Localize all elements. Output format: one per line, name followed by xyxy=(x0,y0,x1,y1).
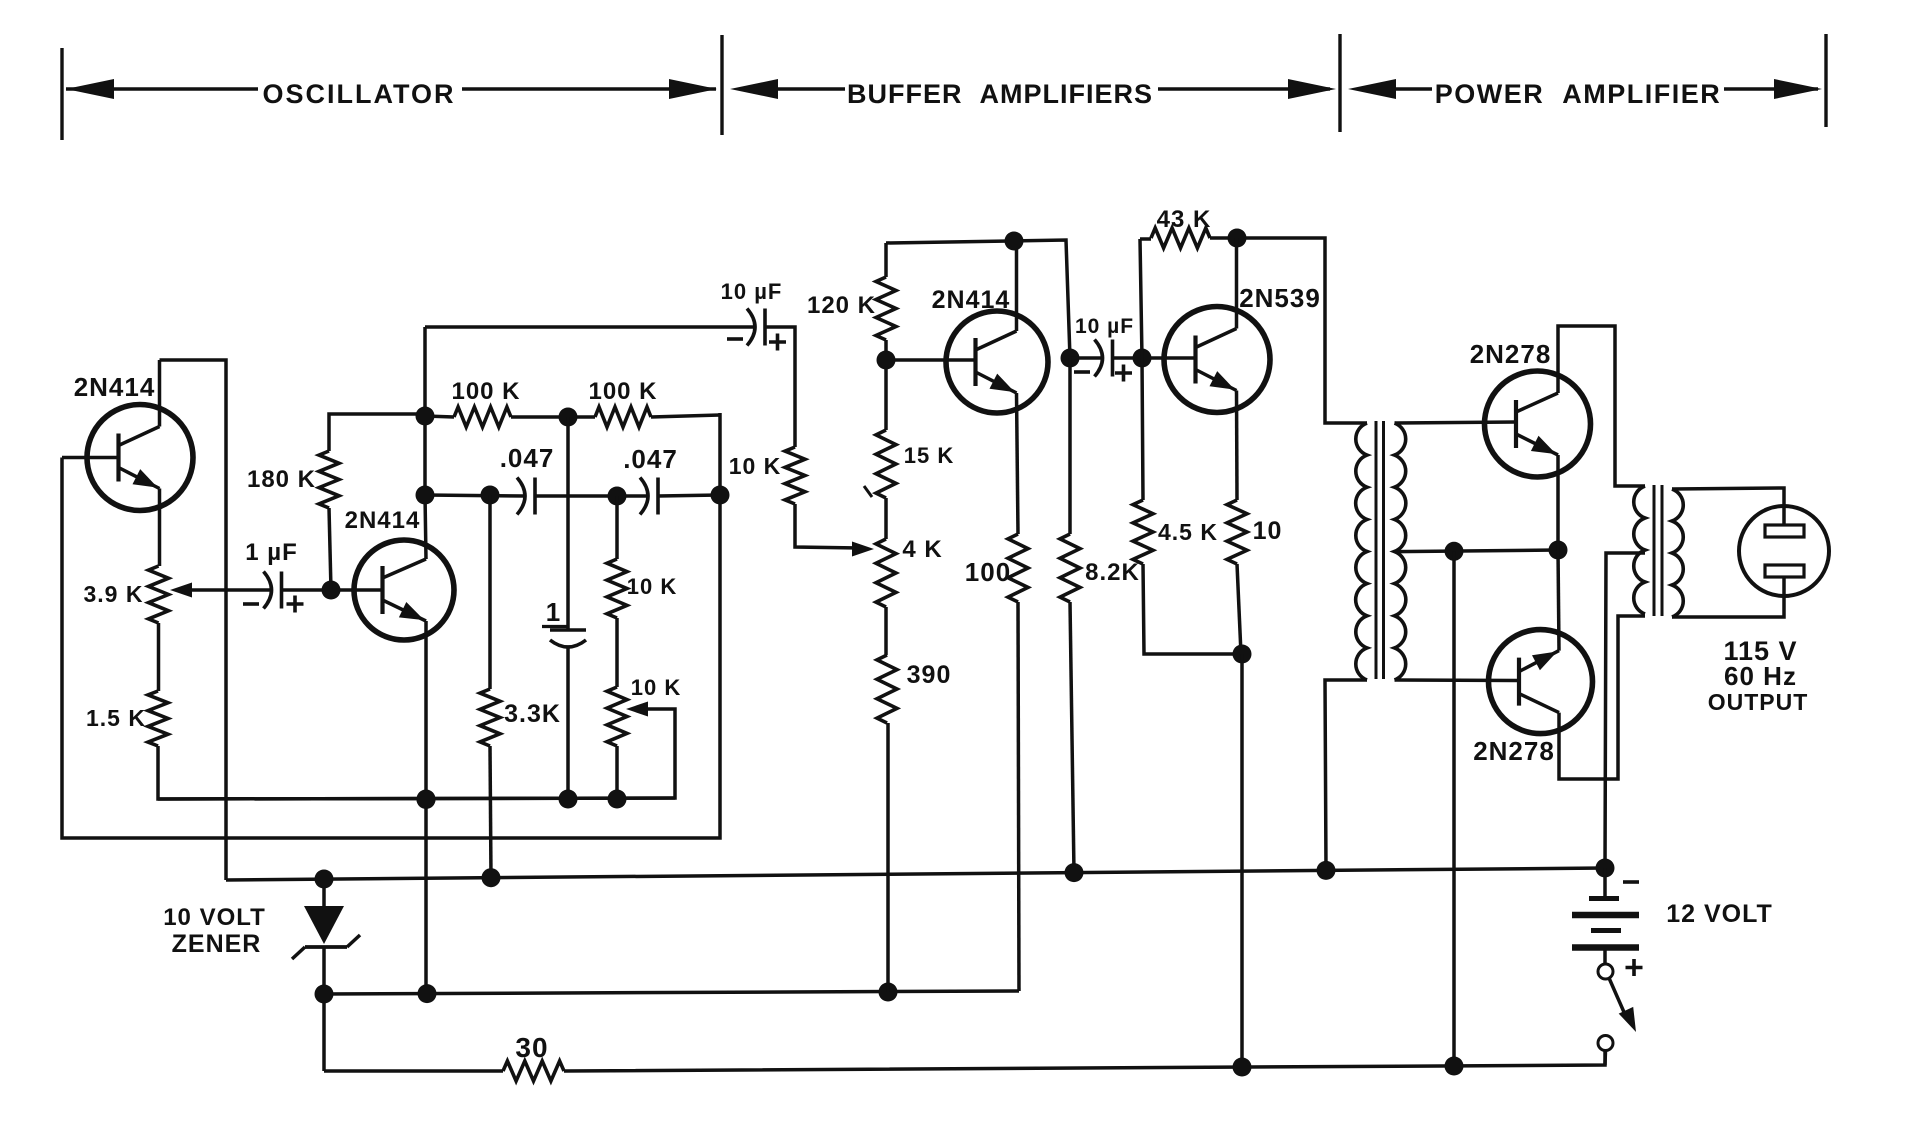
svg-text:4.5 K: 4.5 K xyxy=(1158,519,1218,545)
svg-text:10 µF: 10 µF xyxy=(1075,315,1134,338)
svg-text:2N539: 2N539 xyxy=(1239,283,1321,313)
svg-text:8.2K: 8.2K xyxy=(1085,559,1140,586)
svg-text:10 K: 10 K xyxy=(631,675,681,700)
svg-text:3.9 K: 3.9 K xyxy=(84,581,144,607)
svg-text:43 K: 43 K xyxy=(1157,206,1212,233)
svg-text:2N414: 2N414 xyxy=(345,507,421,534)
svg-text:180 K: 180 K xyxy=(247,466,316,493)
svg-text:15 K: 15 K xyxy=(904,443,954,468)
svg-text:10 µF: 10 µF xyxy=(721,279,783,304)
svg-text:2N278: 2N278 xyxy=(1473,736,1555,766)
svg-text:100 K: 100 K xyxy=(588,378,657,405)
svg-text:100 K: 100 K xyxy=(451,378,520,405)
svg-text:1 µF: 1 µF xyxy=(245,539,298,566)
svg-text:1: 1 xyxy=(546,597,561,627)
svg-text:100: 100 xyxy=(965,557,1011,587)
svg-text:1.5 K: 1.5 K xyxy=(86,705,146,731)
svg-text:BUFFER AMPLIFIERS: BUFFER AMPLIFIERS xyxy=(847,79,1153,109)
svg-text:120 K: 120 K xyxy=(807,292,876,319)
svg-text:2N414: 2N414 xyxy=(932,286,1011,314)
svg-text:2N414: 2N414 xyxy=(74,372,156,402)
svg-text:4 K: 4 K xyxy=(902,536,942,563)
svg-text:.047: .047 xyxy=(623,444,678,474)
svg-text:30: 30 xyxy=(515,1032,548,1063)
svg-text:60 Hz: 60 Hz xyxy=(1724,661,1797,691)
svg-text:3.3K: 3.3K xyxy=(504,700,561,728)
svg-text:390: 390 xyxy=(907,661,952,689)
svg-text:2N278: 2N278 xyxy=(1470,339,1552,369)
svg-text:10 VOLT: 10 VOLT xyxy=(163,904,266,931)
svg-text:POWER AMPLIFIER: POWER AMPLIFIER xyxy=(1435,79,1722,109)
svg-text:12 VOLT: 12 VOLT xyxy=(1666,900,1773,928)
svg-text:.047: .047 xyxy=(500,443,555,473)
svg-text:10 K: 10 K xyxy=(627,574,677,599)
svg-text:OSCILLATOR: OSCILLATOR xyxy=(263,79,456,109)
svg-text:OUTPUT: OUTPUT xyxy=(1708,689,1809,715)
svg-text:10 K: 10 K xyxy=(729,453,782,479)
svg-text:10: 10 xyxy=(1253,517,1283,545)
svg-text:ZENER: ZENER xyxy=(172,930,262,958)
